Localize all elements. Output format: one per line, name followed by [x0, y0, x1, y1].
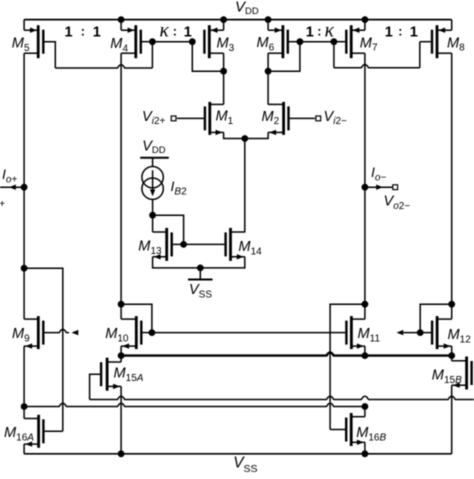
node left bias tap	[21, 403, 28, 410]
wire M1 source to tail	[224, 132, 245, 138]
wire bias line 406	[24, 403, 365, 406]
svg-text:κ: κ	[160, 21, 170, 42]
node M11 diode tap	[362, 301, 369, 308]
transistor M6	[268, 25, 288, 58]
wire tail down	[244, 139, 246, 233]
svg-text::: :	[317, 25, 321, 39]
wire M1 gate	[177, 117, 204, 119]
power rail VSS	[24, 453, 452, 455]
node M6 drain	[265, 68, 272, 75]
wire M2 drain	[267, 71, 269, 104]
wire M2 source to tail	[245, 132, 268, 138]
transistor M7	[346, 25, 365, 58]
transistor M8	[432, 25, 452, 58]
wire M5 drain column	[23, 53, 25, 319]
wire M13 drain	[152, 215, 154, 232]
node Io+ tap	[21, 184, 28, 191]
node M6 gate	[297, 38, 304, 45]
arrow Io+	[9, 185, 16, 190]
wire M15B drain	[451, 356, 453, 361]
wire IB2 to M13	[152, 199, 154, 215]
node VDD-M4	[118, 16, 125, 23]
svg-text:1: 1	[410, 25, 418, 41]
node IB2-M13	[149, 212, 156, 219]
node M6-M7 gates	[331, 38, 338, 45]
node M12 source	[448, 352, 455, 359]
node M3 drain	[220, 68, 227, 75]
svg-text::: :	[398, 25, 402, 39]
transistor M15A	[101, 358, 121, 391]
wire M1 drain	[223, 71, 225, 104]
terminal Vi2-	[316, 116, 321, 121]
wire left branch	[24, 268, 63, 431]
wire M12 gate	[420, 332, 431, 334]
wire M15A source	[120, 386, 122, 453]
node M10 source	[118, 352, 125, 359]
ground VSS mid	[199, 268, 201, 280]
wire left gate bus	[55, 65, 152, 68]
wire M9 gate	[45, 329, 70, 332]
transistor M11	[346, 316, 365, 349]
wire bias line 399	[90, 396, 474, 399]
wire M6 drain	[267, 53, 269, 71]
transistor M9	[24, 316, 43, 349]
transistor M16B	[346, 413, 365, 446]
wire M9 source	[23, 346, 25, 406]
node Io- tap	[362, 184, 369, 191]
node M11 source	[362, 352, 369, 359]
wire M4 source	[120, 20, 122, 31]
terminal Vo2-	[393, 185, 398, 190]
transistor M4	[121, 25, 141, 58]
wire M10 gate	[143, 332, 152, 334]
node VSS mid	[197, 265, 204, 272]
wire M16B source	[364, 442, 366, 454]
wire M10 diode loop	[121, 304, 152, 332]
wire M12 diode loop	[420, 304, 452, 332]
wire class-AB interconnect	[121, 352, 452, 355]
svg-text:1: 1	[385, 25, 393, 41]
node M12 gate	[417, 329, 424, 336]
wire M6 gate-drain tie	[268, 42, 300, 71]
wire M12 gate bias stub	[404, 332, 421, 334]
node M10 diode tap	[118, 301, 125, 308]
wire M5 source	[23, 20, 25, 31]
wire right gate bus riser	[333, 42, 335, 68]
transistor M15B	[452, 357, 472, 390]
wire Io-	[365, 186, 393, 188]
wire gate bus riser	[151, 42, 153, 68]
wire Io+	[0, 186, 24, 188]
transistor M14	[226, 228, 245, 261]
node M10 gate	[149, 329, 156, 336]
node M4-M3 gates	[149, 38, 156, 45]
wire M16B drain	[364, 407, 366, 417]
wire M6 gate	[289, 41, 300, 43]
wire M16A source	[23, 444, 25, 454]
arrow Io-	[376, 185, 383, 190]
arrow M9 gate bias	[72, 330, 79, 335]
node left branch	[21, 265, 28, 272]
wire M8 drain column	[451, 53, 453, 304]
wire gate M6-M7	[300, 41, 334, 43]
power rail VDD	[24, 19, 452, 21]
wire M11 source	[364, 346, 366, 356]
wire M6 source	[267, 20, 269, 31]
wire M3 drain	[223, 53, 225, 71]
node VDD-M7	[362, 16, 369, 23]
svg-text:1: 1	[306, 25, 314, 41]
wire right gate bus	[334, 65, 420, 68]
wire gate M13-M14	[184, 243, 225, 245]
transistor M2	[268, 102, 288, 135]
wire M16A gate	[45, 430, 63, 432]
svg-text:1: 1	[65, 25, 73, 41]
wire gate M4-M3	[152, 41, 192, 43]
wire M15B source	[451, 385, 453, 454]
svg-text:κ: κ	[325, 21, 335, 42]
wire M16B gate	[330, 429, 345, 431]
wire M11 gate to M16B	[329, 333, 331, 430]
svg-text:+: +	[0, 199, 5, 210]
node M3 gate	[189, 38, 196, 45]
node VDD-M3	[220, 16, 227, 23]
wire VDD to source	[152, 158, 154, 167]
transistor M10	[121, 316, 141, 349]
transistor M1	[205, 102, 224, 135]
wire M11 gate	[330, 332, 345, 334]
wire M7 drain column	[364, 53, 366, 319]
wire M16A drain	[23, 407, 25, 419]
wire M15A gate	[90, 374, 100, 399]
node tail	[241, 135, 248, 142]
svg-text::: :	[173, 25, 177, 39]
wire M3 gate-drain tie	[192, 42, 223, 71]
transistor M16A	[24, 415, 43, 448]
svg-text:1: 1	[184, 25, 192, 41]
wire M12 source	[451, 346, 453, 356]
wire right gate bus riser 2	[419, 42, 421, 68]
wire M8 gate	[420, 41, 431, 43]
terminal Vi2+	[171, 116, 176, 121]
transistor M5	[24, 25, 43, 58]
wire M15A drain	[120, 356, 122, 362]
node M15A source VSS	[118, 450, 125, 457]
wire M3 source	[223, 20, 225, 31]
node right bias tap	[362, 403, 369, 410]
transistor M13	[153, 228, 172, 261]
svg-text:1: 1	[93, 25, 101, 41]
wire gate bus M10-M11	[152, 332, 330, 334]
svg-text::: :	[81, 25, 85, 39]
wire M8 source	[451, 20, 453, 31]
wire M2 gate	[290, 117, 315, 119]
arrow M12 gate bias	[397, 330, 404, 335]
node VDD-M6	[265, 16, 272, 23]
wire M12 drain riser	[451, 304, 453, 319]
wire M11 diode loop	[330, 304, 365, 332]
wire M14 source	[200, 257, 245, 268]
wire M7 source	[364, 20, 366, 31]
transistor M3	[204, 25, 223, 58]
wire M4 gate	[142, 41, 152, 43]
wire M10 source	[120, 346, 122, 356]
supply tick VDD bias	[140, 157, 169, 159]
transistor M12	[432, 316, 452, 349]
wire M7 gate	[334, 41, 345, 43]
node M13-M14 gates	[180, 241, 187, 248]
node M16B source VSS	[362, 450, 369, 457]
wire M13 gate	[173, 243, 184, 245]
wire M4 drain column	[120, 53, 122, 319]
wire M13 diode loop	[153, 215, 184, 244]
wire M5 gate	[45, 42, 56, 68]
wire M13 source	[153, 257, 201, 268]
current source IB2	[142, 167, 163, 200]
node M12 diode tap	[448, 301, 455, 308]
